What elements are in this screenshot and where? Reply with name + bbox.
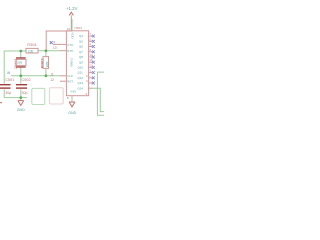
svg-text:GND: GND: [17, 108, 25, 112]
svg-text:Q6: Q6: [79, 45, 83, 49]
svg-text:100: 100: [28, 50, 34, 54]
svg-text:VSS: VSS: [70, 89, 76, 93]
svg-text:R304: R304: [27, 42, 37, 47]
svg-text:47K: 47K: [45, 60, 49, 67]
svg-text:Q9: Q9: [79, 60, 83, 64]
svg-text:Q5: Q5: [79, 39, 83, 43]
svg-text:Q14: Q14: [78, 86, 84, 90]
svg-text:CTC: CTC: [67, 43, 73, 47]
svg-text:C4060: C4060: [70, 58, 74, 67]
svg-text:9: 9: [53, 41, 55, 45]
svg-text:U503: U503: [74, 26, 82, 30]
svg-text:12: 12: [50, 78, 54, 82]
svg-text:Q4: Q4: [79, 34, 83, 38]
svg-text:C502: C502: [22, 78, 31, 82]
svg-text:RST: RST: [67, 80, 73, 84]
svg-text:C501: C501: [5, 78, 14, 82]
svg-text:Q13: Q13: [78, 81, 84, 85]
svg-text:R302: R302: [39, 58, 44, 68]
svg-text:Q12: Q12: [78, 76, 84, 80]
svg-text:VDD: VDD: [70, 32, 74, 38]
svg-text:30p: 30p: [22, 91, 28, 95]
svg-text:30p: 30p: [5, 91, 11, 95]
svg-text:Q7: Q7: [79, 50, 83, 54]
svg-text:Q8: Q8: [79, 55, 83, 59]
svg-text:10: 10: [53, 46, 57, 50]
svg-text:16: 16: [67, 27, 71, 31]
svg-text:Q10: Q10: [78, 66, 84, 70]
svg-text:CLK: CLK: [67, 74, 73, 78]
svg-text:Q11: Q11: [78, 71, 84, 75]
svg-text:+1.2V: +1.2V: [66, 6, 77, 11]
svg-text:25M: 25M: [17, 61, 23, 65]
svg-text:11: 11: [50, 72, 54, 76]
svg-text:RTC: RTC: [67, 49, 73, 53]
svg-text:GND: GND: [68, 111, 76, 115]
